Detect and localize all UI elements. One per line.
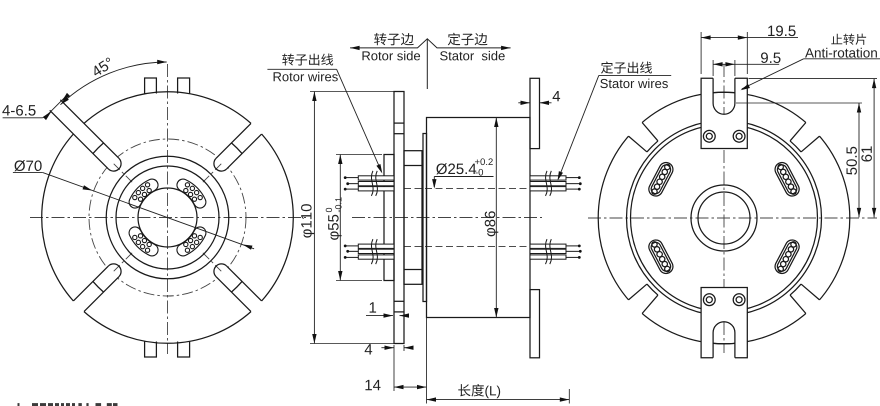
flange slot notch 315deg [791, 285, 824, 318]
anti-rotation label leader [804, 58, 880, 60]
outer flange circle dia.110 (4 arcs between slots) [84, 92, 251, 124]
label dingzibian [448, 33, 460, 46]
slot centerline 45deg [203, 138, 247, 182]
rotor/stator side divider and arrows [350, 39, 511, 48]
anti-rotation tab plate bottom (side view) [530, 290, 540, 358]
hidden bore lines dia.25.4 [404, 188, 530, 190]
label dingzichuxian [601, 61, 613, 73]
dia.25.4 dimension [434, 176, 493, 178]
rotor flange dia.110 [394, 92, 404, 344]
rotor wires lower bundle [344, 239, 394, 264]
dia.55 dimension [339, 155, 341, 281]
flange circle visible through top tab slot [713, 91, 735, 93]
anti-rotation tab plate top (side view) [530, 78, 540, 148]
contact slot upper left [646, 160, 675, 198]
dia.86 dimension [495, 118, 497, 318]
flange thickness 4 dimension (bottom) [393, 345, 395, 391]
right view vertical centerline [723, 64, 725, 353]
rotor boss dia.55 [384, 155, 394, 281]
label changdu(L) [458, 384, 470, 396]
right view: stator-side face [588, 64, 877, 358]
left view vertical centerline [167, 64, 169, 354]
rotor wires upper bundle [344, 171, 394, 196]
wire-hole pad 315deg [177, 227, 206, 256]
left view: rotor-side face of slip ring [30, 64, 306, 357]
61 dimension [749, 78, 878, 80]
19.5 dimension [700, 32, 702, 74]
spacer ring [423, 134, 427, 302]
tab thickness 4 dimension (top) [518, 102, 530, 104]
flange slot notch 135deg [625, 119, 658, 152]
middle view: cross-section side view [352, 78, 542, 358]
length L dimension [568, 389, 570, 404]
45 deg dimension arc [60, 62, 166, 105]
label zhuanzibian [374, 33, 386, 45]
mounting slot 315deg [216, 266, 266, 316]
mounting slot 135deg with extended edges [69, 119, 119, 169]
left view horizontal centerline [30, 217, 306, 219]
slot projections on flange [394, 122, 404, 124]
bolt circle dia.70 (dash-dot) [89, 139, 246, 296]
stator wires lower bundle [530, 239, 582, 264]
slot centerline 225deg [88, 253, 132, 297]
top tab edges (stator tab behind rotor flange) [145, 78, 157, 94]
rotor flange circle dia.110 behind [598, 92, 850, 344]
slot centerline 135deg [88, 138, 132, 182]
flange circle visible through bottom tab slot [713, 342, 735, 344]
stator body circles dia.86 [631, 125, 818, 312]
anti-rotation tab bottom [701, 288, 747, 358]
label zhuanzichuxian [282, 54, 294, 66]
50.5 dimension [736, 102, 862, 104]
bottom tab edges [145, 341, 157, 357]
center bore dia.25.4 [138, 188, 197, 247]
boss circle dia.55 [106, 156, 229, 279]
wire-hole pad 45deg [177, 179, 206, 208]
middle view horizontal centerline [352, 217, 542, 219]
rotor barrel [404, 151, 422, 285]
14 dimension [426, 318, 428, 404]
gap 1 dimension [366, 315, 393, 317]
label zhizhuanpian [831, 34, 842, 45]
dia.110 dimension [313, 92, 315, 344]
stator body dia.86 [427, 118, 531, 318]
9.5 dimension [712, 60, 714, 76]
slot centerline 315deg [203, 253, 247, 297]
rotor wires label leader [267, 68, 336, 70]
inner circle [116, 166, 219, 269]
center bore circles [691, 185, 757, 251]
wire-hole pad 225deg [129, 227, 158, 256]
contact slot lower left [646, 238, 675, 276]
cut-off note text at bottom [18, 403, 118, 406]
dia.70 label and leader [14, 160, 25, 171]
4-6.5 slot width dimension [2, 105, 10, 115]
mounting slot 45deg (4-6.5) [216, 119, 266, 169]
anti-rotation tab top [701, 78, 747, 148]
stator wires upper bundle [530, 171, 582, 196]
contact slot upper right [773, 160, 802, 198]
wire-hole pad 135deg [129, 179, 158, 208]
right view horizontal centerline [588, 217, 877, 219]
flange slot notch 225deg [625, 285, 658, 318]
flange slot notch 45deg [791, 119, 824, 152]
stator wires label leader [599, 74, 671, 76]
mounting slot 225deg [69, 266, 119, 316]
contact slot lower right [773, 238, 802, 276]
